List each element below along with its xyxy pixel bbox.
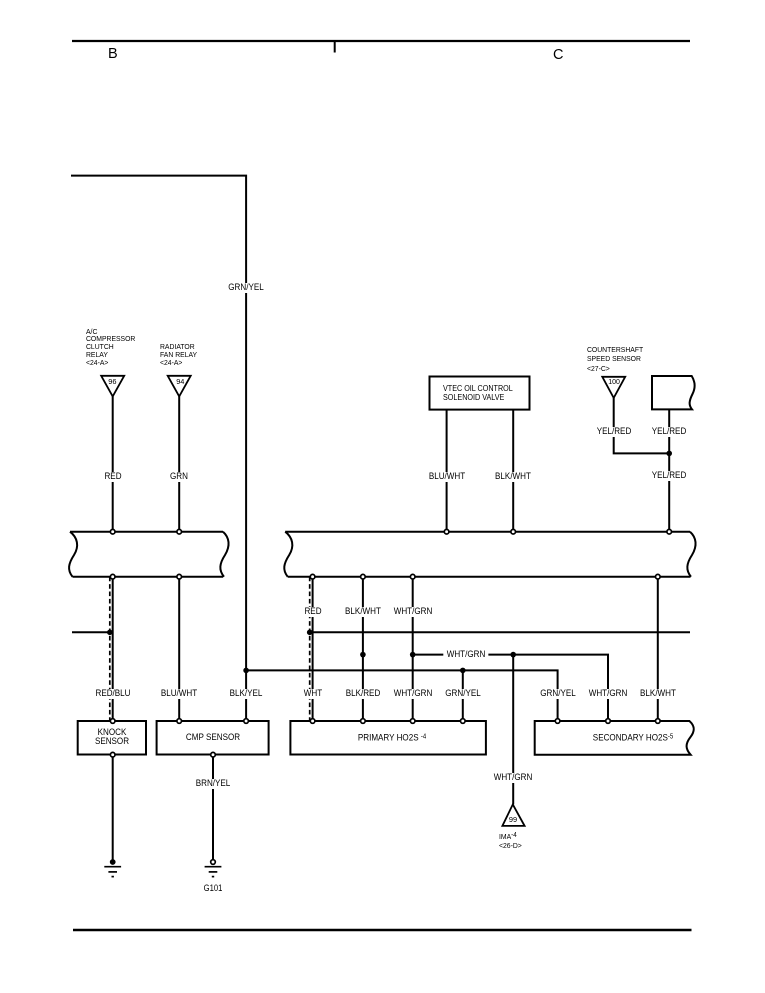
junction dot shield knock xyxy=(107,630,113,636)
junction dot WHT/GRN at primary xyxy=(410,652,416,658)
connector triangle 100 (countershaft speed sensor) xyxy=(602,377,625,398)
bottom border rule xyxy=(73,929,692,931)
label BRN/YEL xyxy=(195,779,231,789)
pin number 99 xyxy=(509,816,517,824)
connector band right (C102) xyxy=(284,532,695,577)
wire BRN/YEL CMP sensor to ground xyxy=(212,755,214,860)
header letter B xyxy=(108,47,118,61)
label CMP sensor xyxy=(185,733,241,743)
label WHT/GRN (upper) xyxy=(393,607,433,617)
wire YEL/RED from torn box xyxy=(668,409,670,531)
wire RED from relay 96 xyxy=(112,396,114,531)
CMP sensor box xyxy=(157,721,269,755)
label IMA xyxy=(499,831,522,850)
pin circles band right bottom xyxy=(310,574,660,579)
wire shield tap right (primary HO2S) xyxy=(310,631,690,633)
wire shield tap left (knock) xyxy=(72,631,113,633)
top border rule xyxy=(72,41,690,53)
wire BLU/WHT from VTEC valve xyxy=(446,410,448,532)
pin circles knock sensor xyxy=(110,719,115,757)
torn box (countershaft speed sensor mate) xyxy=(652,376,695,409)
label YEL/RED (triangle 100) xyxy=(596,427,632,437)
junction dot at knock ground xyxy=(110,859,116,865)
wire GRN/YEL branch line xyxy=(246,670,557,721)
junction dot GRN/YEL at primary xyxy=(460,668,466,674)
connector triangle 96 (A/C compressor clutch relay) xyxy=(101,376,124,397)
pin circles band left bottom xyxy=(110,574,181,579)
label BLK/WHT (secondary pin) xyxy=(639,689,677,699)
wire BLK/WHT from VTEC valve xyxy=(512,410,514,532)
label YEL/RED (joined) xyxy=(651,471,687,481)
wire RED to WHT primary HO2S xyxy=(312,577,314,721)
pin number 100 xyxy=(608,379,620,387)
label YEL/RED (torn box) xyxy=(651,427,687,437)
pin circles primary HO2S xyxy=(310,719,465,724)
wire GRN/YEL to primary HO2S xyxy=(462,670,464,721)
wire knock sensor to ground xyxy=(112,755,114,863)
label A/C compressor clutch relay xyxy=(86,328,135,367)
label BLU/WHT (CMP) xyxy=(160,689,198,699)
label BLK/WHT (VTEC) xyxy=(494,472,532,482)
label GRN/YEL (primary pin) xyxy=(444,689,481,699)
pin circles CMP sensor xyxy=(177,719,249,757)
pin circles band left top xyxy=(110,529,181,534)
primary HO2S box xyxy=(290,721,486,755)
label WHT/GRN (secondary pin) xyxy=(588,689,628,699)
wire GRN/YEL to BLK/YEL vertical (CMP sensor) xyxy=(245,250,247,721)
wire WHT/GRN primary HO2S xyxy=(412,577,414,721)
label RED (primary WHT wire upper) xyxy=(303,607,322,617)
junction dot GRN/YEL at BLK/YEL wire xyxy=(243,668,249,674)
label GRN xyxy=(169,472,189,482)
connector triangle 94 (radiator fan relay) xyxy=(168,376,191,397)
label BLK/YEL xyxy=(229,689,263,699)
wire GRN/YEL horizontal feeder xyxy=(71,176,246,250)
label GRN/YEL top xyxy=(227,283,264,293)
label GRN/YEL (secondary pin) xyxy=(539,689,576,699)
shield dashed (knock sensor wire) xyxy=(109,577,111,721)
pin number 96 xyxy=(108,378,116,386)
label primary HO2S xyxy=(357,732,427,743)
wire GRN from relay 94 xyxy=(178,396,180,531)
wire WHT/GRN branch line xyxy=(413,655,608,721)
pin circles secondary HO2S xyxy=(555,719,660,724)
connector band left (C101) xyxy=(69,532,229,577)
wire WHT/GRN down to IMA xyxy=(512,655,514,805)
label WHT/GRN (inline on branch wire) xyxy=(443,650,488,660)
wire RED/BLU knock sensor xyxy=(112,577,114,721)
label RED xyxy=(103,472,122,482)
label BLU/WHT (VTEC) xyxy=(428,472,466,482)
label WHT/GRN (primary pin) xyxy=(393,689,433,699)
pin number 94 xyxy=(176,378,184,386)
label WHT xyxy=(303,689,323,699)
label countershaft speed sensor xyxy=(587,345,643,374)
knock sensor box xyxy=(78,721,146,755)
pin circles band right top xyxy=(444,529,671,534)
label BLK/RED xyxy=(345,689,381,699)
secondary HO2S box xyxy=(535,721,694,755)
junction dot WHT/GRN to IMA xyxy=(510,652,516,658)
junction dot shield primary xyxy=(307,630,313,636)
ground pin circle G101 xyxy=(211,860,216,865)
label knock sensor xyxy=(94,728,130,746)
label G101 xyxy=(203,883,223,893)
wire BLU/WHT CMP sensor xyxy=(178,577,180,721)
junction dot YEL/RED xyxy=(666,451,672,457)
VTEC oil control solenoid valve box xyxy=(430,377,530,410)
connector triangle 99 (IMA) xyxy=(502,804,524,826)
header letter C xyxy=(553,48,563,62)
shield dashed (primary HO2S WHT wire) xyxy=(309,577,311,721)
wire BLK/WHT secondary HO2S xyxy=(657,577,659,721)
color change dot BLK/WHT-BLK/RED xyxy=(360,652,366,658)
label RED/BLU xyxy=(94,689,131,699)
label BLK/WHT (upper) xyxy=(344,607,382,617)
label secondary HO2S xyxy=(592,732,674,743)
ground symbol knock sensor xyxy=(104,867,121,877)
label VTEC oil control solenoid valve xyxy=(443,384,513,403)
label radiator fan relay xyxy=(160,343,197,366)
wire BLK/WHT to BLK/RED primary HO2S xyxy=(362,577,364,721)
wire YEL/RED from triangle 100 xyxy=(614,398,670,454)
ground symbol G101 xyxy=(205,867,222,877)
label WHT/GRN (to IMA) xyxy=(493,773,533,783)
